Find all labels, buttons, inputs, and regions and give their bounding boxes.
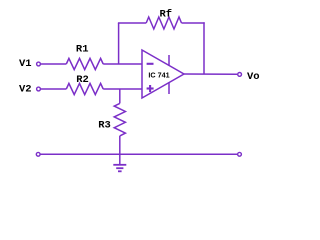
svg-text:V1: V1 bbox=[19, 58, 32, 70]
svg-text:R1: R1 bbox=[76, 44, 89, 56]
svg-text:R2: R2 bbox=[76, 74, 89, 86]
svg-text:R3: R3 bbox=[98, 120, 111, 132]
svg-text:V2: V2 bbox=[19, 83, 32, 95]
svg-text:Vo: Vo bbox=[247, 71, 260, 83]
svg-text:IC 741: IC 741 bbox=[148, 71, 169, 80]
svg-text:Rf: Rf bbox=[159, 9, 172, 21]
